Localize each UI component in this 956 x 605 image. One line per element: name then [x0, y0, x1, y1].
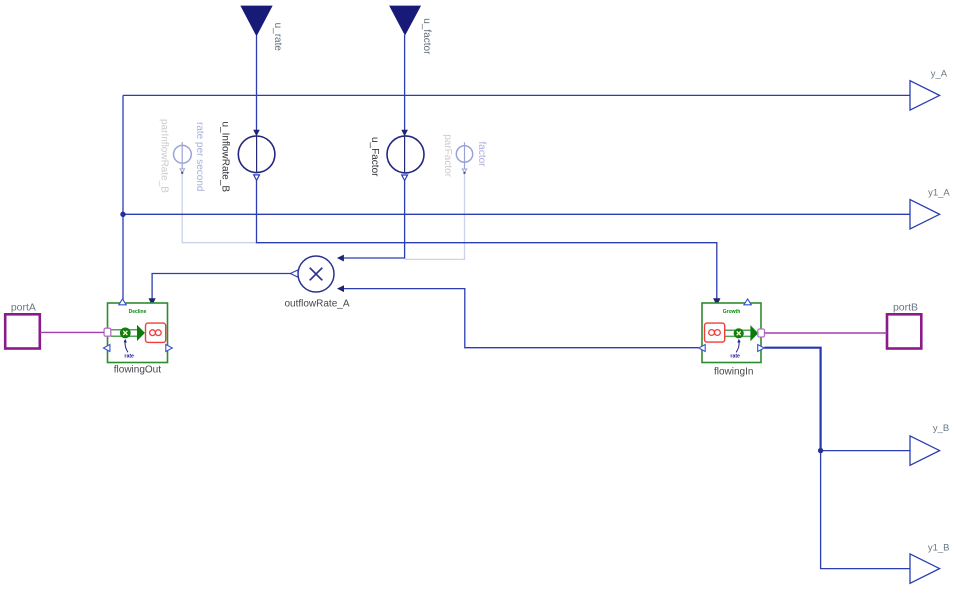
converter u_Factor — [387, 136, 424, 181]
output y1_A triangle — [910, 200, 940, 229]
svg-text:u_InflowRate_B: u_InflowRate_B — [220, 122, 231, 193]
svg-text:parFactor: parFactor — [442, 134, 453, 177]
ghost wire from parInflowRate_B down and right — [182, 173, 257, 243]
wire portA to flowingOut — [40, 331, 104, 333]
input u_rate triangle — [241, 6, 272, 36]
svg-text:y_A: y_A — [931, 68, 948, 79]
svg-text:rate per second: rate per second — [194, 122, 205, 192]
output y_A triangle — [910, 81, 940, 110]
junction dot at y_B branch — [818, 448, 823, 453]
svg-text:flowingOut: flowingOut — [114, 364, 161, 375]
ghost converter parInflowRate_B — [174, 142, 192, 174]
wire y1_A horizontal — [123, 213, 910, 215]
connector portB — [887, 314, 921, 348]
wire u_Factor output down left into outflowRate_A — [343, 180, 405, 258]
svg-text:portB: portB — [893, 302, 918, 314]
svg-text:flowingIn: flowingIn — [714, 366, 753, 377]
svg-text:y1_B: y1_B — [928, 542, 950, 553]
connector portA — [5, 314, 40, 348]
product outflowRate_A — [290, 256, 334, 292]
wire vertical trunk x=123 — [122, 95, 124, 299]
svg-text:Growth: Growth — [723, 309, 741, 315]
svg-text:u_factor: u_factor — [421, 18, 432, 55]
svg-text:u_Factor: u_Factor — [369, 137, 380, 177]
component flowingOut — [103, 299, 172, 363]
junction dot at x=123 y1_A — [120, 212, 125, 217]
input u_factor triangle — [390, 6, 421, 35]
ghost wire from parFactor down and left — [405, 174, 465, 259]
svg-text:rate: rate — [124, 353, 134, 359]
svg-text:Decline: Decline — [129, 309, 147, 315]
svg-text:factor: factor — [476, 142, 487, 168]
svg-text:y1_A: y1_A — [928, 187, 950, 198]
output y1_B triangle — [910, 554, 940, 583]
output y_B triangle — [910, 436, 940, 465]
svg-text:outflowRate_A: outflowRate_A — [284, 298, 349, 309]
wire flowingIn to portB — [765, 332, 887, 334]
svg-text:y_B: y_B — [933, 423, 949, 434]
ghost converter parFactor — [456, 142, 472, 174]
svg-text:rate: rate — [730, 353, 740, 359]
wire outflowRate_A output left and down to flowingOut rate — [152, 274, 290, 300]
wire branch to y_B — [821, 450, 910, 452]
wire u_factor drop into u_Factor — [404, 35, 406, 131]
wire flowingIn y output left and up into outflowRate_A — [343, 289, 699, 348]
svg-text:u_rate: u_rate — [272, 23, 283, 52]
wire flowingIn y1 output right and down to y_B / y1_B — [764, 348, 820, 451]
wire u_rate drop into u_InflowRate_B — [256, 36, 258, 132]
svg-text:portA: portA — [11, 302, 36, 314]
svg-text:parInflowRate_B: parInflowRate_B — [159, 119, 170, 193]
converter u_InflowRate_B — [238, 136, 275, 180]
wire y_A horizontal — [123, 94, 910, 96]
wire u_InflowRate_B output down right to flowingIn rate — [257, 180, 717, 299]
component flowingIn — [699, 299, 765, 363]
